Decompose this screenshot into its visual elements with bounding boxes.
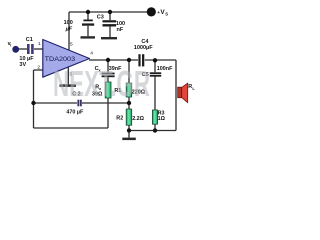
- wire bottom left: [34, 127, 109, 129]
- wire C5 to R3: [154, 77, 156, 110]
- ground under C3: [101, 37, 117, 39]
- node top junction C3: [108, 10, 112, 14]
- wire R3 bottom stub: [154, 124, 156, 130]
- svg-text:S: S: [165, 12, 168, 17]
- wire cap 100uF stub: [87, 12, 89, 20]
- resistor R3: [152, 110, 157, 124]
- svg-text:C1: C1: [26, 37, 33, 43]
- svg-text:100nF: 100nF: [157, 66, 173, 72]
- node output junction R1: [127, 58, 131, 62]
- supply terminal +Vs: [147, 7, 156, 16]
- svg-text:2: 2: [37, 65, 40, 71]
- capacitor 100uF bypass: [83, 20, 92, 22]
- svg-text:NEXT.GR: NEXT.GR: [53, 63, 150, 104]
- wire C2 row right: [82, 102, 129, 104]
- svg-text:5: 5: [70, 42, 73, 48]
- svg-text:4: 4: [90, 50, 93, 56]
- input terminal vi: [12, 46, 19, 53]
- wire output rail: [89, 59, 138, 61]
- wire R1 bottom stub: [128, 97, 130, 103]
- svg-text:R2: R2: [116, 116, 123, 122]
- wire pin5 riser: [68, 12, 70, 50]
- resistor R2: [126, 109, 132, 125]
- wire C1 to pin1: [34, 48, 43, 50]
- wire C3 gnd stem: [109, 27, 111, 38]
- speaker RL: [178, 87, 182, 98]
- resistor R1: [126, 83, 132, 97]
- svg-text:100: 100: [64, 20, 73, 26]
- wire R2 bottom stub: [128, 125, 130, 130]
- wire R2 top stub: [128, 103, 130, 109]
- svg-text:1: 1: [38, 41, 41, 47]
- wire Cx branch top: [107, 60, 109, 72]
- svg-text:C4: C4: [141, 39, 149, 45]
- node R3 bottom junction: [153, 128, 157, 132]
- capacitor C2: [77, 100, 79, 107]
- svg-text:µF: µF: [65, 26, 73, 32]
- resistor Rx: [105, 82, 111, 98]
- node output junction C5: [153, 58, 157, 62]
- svg-text:C3: C3: [97, 14, 104, 20]
- wire C4 to speaker node: [145, 59, 176, 61]
- node R2 bottom junction: [127, 128, 131, 132]
- svg-text:10 µF: 10 µF: [19, 56, 34, 62]
- node top junction 100uF: [86, 10, 90, 14]
- wire pin3 stub: [67, 66, 69, 84]
- wire Cx to Rx: [107, 77, 109, 82]
- node pin2 junction: [31, 101, 35, 105]
- wire pin2 left: [34, 69, 44, 71]
- svg-text:2.2Ω: 2.2Ω: [132, 116, 144, 122]
- svg-text:nF: nF: [117, 27, 124, 33]
- svg-text:i: i: [10, 43, 11, 48]
- node R1 R2 junction: [127, 101, 131, 105]
- ground under pin3: [60, 84, 77, 87]
- svg-text:1Ω: 1Ω: [158, 116, 166, 122]
- capacitor C5: [150, 72, 161, 74]
- wire C3 stub: [109, 12, 111, 20]
- wire speaker riser: [175, 60, 177, 131]
- svg-text:3V: 3V: [19, 62, 26, 68]
- svg-text:470 µF: 470 µF: [66, 109, 84, 115]
- ground under R2: [128, 131, 130, 138]
- wire C2 row left: [34, 102, 78, 104]
- wire cap 100uF gnd stem: [87, 26, 89, 37]
- wire bottom right rail: [129, 130, 176, 132]
- wire R1 branch top: [128, 60, 130, 83]
- wire up to Rx bottom: [107, 98, 109, 128]
- ground under 100uF cap: [81, 36, 96, 38]
- wire pin2 down: [33, 70, 35, 128]
- svg-text:TDA2003: TDA2003: [45, 56, 76, 63]
- op-amp U1 TDA2003: [43, 40, 90, 78]
- capacitor Cx: [102, 73, 115, 75]
- capacitor C4: [138, 54, 140, 66]
- wire top rail: [69, 11, 150, 13]
- wire C5 branch top: [154, 60, 156, 72]
- capacitor C3: [103, 20, 117, 22]
- svg-text:1000µF: 1000µF: [134, 45, 153, 51]
- wire input to C1: [18, 48, 27, 50]
- node output junction Cx: [106, 58, 110, 62]
- capacitor C1: [27, 44, 30, 54]
